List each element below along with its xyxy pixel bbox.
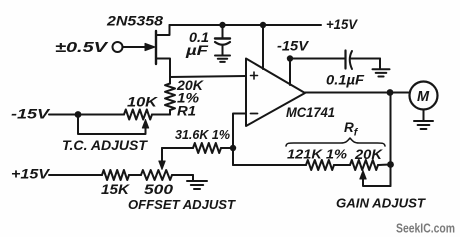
wire V+ pin: [262, 25, 264, 69]
svg-text:10K: 10K: [127, 94, 158, 110]
wire feedback vertical: [390, 93, 392, 187]
wire gate arrow: [123, 46, 148, 48]
capacitor C2 0.1µF: [344, 51, 346, 69]
wire gain wiper: [363, 178, 391, 186]
wire noninverting input: [170, 76, 246, 77]
svg-text:31.6K 1%: 31.6K 1%: [175, 127, 230, 142]
node junction V+: [260, 22, 266, 28]
resistor 15K: [102, 170, 129, 180]
svg-text:0.1µF: 0.1µF: [326, 72, 364, 88]
node junction TC: [75, 111, 82, 118]
svg-text:500: 500: [144, 182, 174, 197]
node output junction: [387, 89, 394, 96]
svg-text:R1: R1: [177, 104, 196, 119]
svg-text:121K 1%: 121K 1%: [287, 147, 347, 162]
resistor R1 20K 1%: [169, 77, 171, 84]
wire +15V row: [49, 174, 102, 176]
ground G1: [215, 55, 230, 57]
resistor 121K 1%: [306, 160, 334, 170]
node junction cap1: [219, 22, 225, 28]
ground G4: [187, 180, 207, 182]
wire output: [305, 92, 410, 94]
wire V- pin: [289, 59, 291, 86]
motor M1: [410, 82, 438, 110]
ground G2: [373, 68, 390, 70]
wire +15V rail: [170, 24, 322, 26]
wire to ground: [192, 175, 194, 181]
node junction inv: [230, 145, 236, 151]
svg-text:SeekIC.com: SeekIC.com: [396, 222, 455, 236]
wire inverting input: [233, 114, 246, 166]
resistor 31.6K 1%: [162, 147, 193, 149]
svg-text:+15V: +15V: [326, 16, 359, 32]
svg-text:-15V: -15V: [277, 38, 310, 54]
wire to C2: [290, 58, 345, 60]
svg-text:20K: 20K: [354, 147, 383, 162]
wire feedback row: [233, 164, 306, 166]
potentiometer 20K (gain): [350, 160, 378, 170]
wire TC wiper: [78, 115, 146, 135]
svg-text:±0.5V: ±0.5V: [55, 40, 109, 56]
op-amp U1 MC1741: [246, 59, 305, 127]
ground G3: [414, 120, 433, 122]
wire -15V row: [49, 114, 124, 116]
potentiometer 500: [141, 170, 172, 180]
svg-text:15K: 15K: [101, 182, 130, 197]
svg-text:-15V: -15V: [11, 106, 51, 122]
wire offset wiper: [161, 148, 163, 162]
svg-text:2N5358: 2N5358: [106, 13, 163, 29]
potentiometer 10K: [124, 110, 152, 120]
wire motor to ground: [423, 110, 425, 121]
node junction feedback: [387, 161, 394, 168]
svg-text:M: M: [417, 89, 430, 105]
brace Rf: [286, 138, 385, 146]
transistor Q1 2N5358: [155, 31, 157, 64]
svg-text:OFFSET ADJUST: OFFSET ADJUST: [128, 197, 236, 212]
capacitor C1 0.1µF: [222, 25, 224, 38]
svg-text:+15V: +15V: [11, 166, 51, 182]
node junction V-: [287, 55, 293, 61]
svg-text:GAIN ADJUST: GAIN ADJUST: [336, 196, 426, 211]
svg-text:T.C. ADJUST: T.C. ADJUST: [62, 137, 148, 153]
svg-text:µF: µF: [185, 42, 209, 58]
svg-text:MC1741: MC1741: [286, 105, 335, 120]
